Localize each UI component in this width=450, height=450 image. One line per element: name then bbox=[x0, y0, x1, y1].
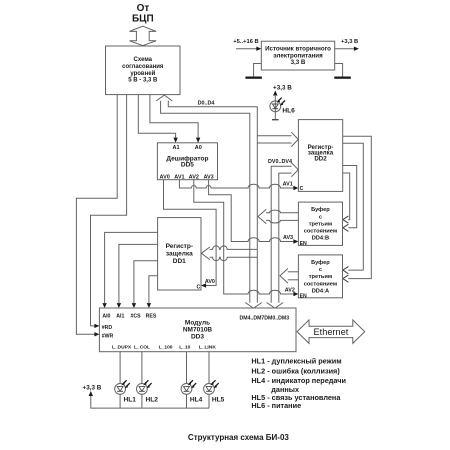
svg-text:уровней: уровней bbox=[130, 70, 155, 77]
svg-text:5 В - 3,3 В: 5 В - 3,3 В bbox=[128, 77, 158, 83]
Ethernet bidirectional arrow bbox=[297, 320, 365, 344]
pin arrow AV0 into C of DD1 bbox=[201, 283, 206, 287]
svg-text:Ethernet: Ethernet bbox=[314, 327, 349, 337]
bus branch into register DD1 (rails with hops + hollow head) bbox=[210, 246, 258, 250]
svg-text:HL6: HL6 bbox=[282, 107, 295, 114]
pin arrow AI0 bbox=[102, 303, 106, 308]
arrow up to +3,3 В (HL6) bbox=[273, 91, 277, 96]
svg-text:состоянием: состоянием bbox=[304, 281, 337, 287]
pin arrow AV2 into EN of DD4:A bbox=[293, 292, 298, 296]
arrow into power box bbox=[256, 47, 261, 51]
svg-text:AV0: AV0 bbox=[160, 175, 170, 181]
bus branch into register DD2 (rails + hollow head) bbox=[257, 135, 291, 137]
wire #RD (from level shifter to module DD3) bbox=[91, 95, 127, 326]
chevron arrow into DD4:B right bbox=[343, 224, 349, 231]
bus DV0..DV4 rails (corner up into DD2, down to module) bbox=[271, 166, 291, 303]
svg-text:с: с bbox=[319, 214, 322, 220]
wire DD2 out 4 to buffer DD4:B input (right side) bbox=[343, 173, 350, 220]
svg-text:A1: A1 bbox=[172, 145, 179, 151]
bus D0..D4 rails (up from corner, east, down to module) bbox=[161, 101, 250, 303]
wire #WR (from level shifter to module DD3) bbox=[76, 95, 117, 335]
pin arrow AV3 into EN of DD4:B bbox=[293, 239, 298, 243]
wire HL6 supply bbox=[274, 95, 276, 120]
svg-text:DD4:A: DD4:A bbox=[312, 288, 329, 294]
svg-text:HL2 - ошибка (коллизия): HL2 - ошибка (коллизия) bbox=[251, 366, 340, 375]
power supply box (Источник вторичного электропитания 3,3 В) bbox=[261, 41, 334, 70]
chevron arrow into DD4:A right bbox=[343, 275, 349, 282]
wire L_10 to HL4 bbox=[186, 352, 188, 408]
LED HL1 bbox=[115, 380, 137, 403]
svg-text:A0: A0 bbox=[195, 145, 202, 151]
svg-text:HL2: HL2 bbox=[146, 396, 159, 403]
svg-text:с: с bbox=[319, 267, 322, 273]
pin arrow #CS bbox=[132, 303, 136, 308]
svg-text:Буфер: Буфер bbox=[311, 259, 330, 266]
bus from buffer DD4:A output (rails + hollow head) bbox=[288, 271, 299, 273]
wire +5..+16 В input bbox=[236, 48, 257, 50]
decoder DD5 (Дешифратор) bbox=[157, 143, 217, 181]
svg-text:DD5: DD5 bbox=[181, 162, 194, 169]
svg-text:HL6 - питание: HL6 - питание bbox=[251, 401, 301, 410]
svg-text:AI0: AI0 bbox=[102, 314, 110, 320]
svg-text:DD1: DD1 bbox=[173, 258, 186, 265]
wire DD2 out 1 to buffer DD4:A input (right side) bbox=[343, 136, 372, 278]
bus D0..D4 arrowhead into level shifter bbox=[156, 95, 172, 101]
svg-text:L_COL: L_COL bbox=[134, 345, 150, 351]
pin arrow A1 bbox=[173, 138, 177, 143]
LED HL4 bbox=[181, 380, 203, 403]
buffer DD4:A (Буфер с третьим состоянием) bbox=[298, 255, 342, 299]
wire L_LINK to HL5 bbox=[208, 352, 210, 408]
pin arrow AV1 into C of DD2 bbox=[293, 186, 298, 190]
svg-text:DM4..DM7DM0..DM3: DM4..DM7DM0..DM3 bbox=[240, 315, 290, 321]
bus from buffer DD4:B output (rails with hop over DV bus + hollow head) bbox=[266, 210, 298, 213]
svg-text:+5..+16 В: +5..+16 В bbox=[233, 39, 258, 45]
wire AV0 (DD5 to DD1 pin C) bbox=[164, 180, 217, 286]
svg-text:DD3: DD3 bbox=[191, 334, 204, 341]
wire +3,3 В output bbox=[335, 48, 354, 50]
wire L_COL to HL2 bbox=[141, 352, 143, 408]
wire DD1 to module pin RES bbox=[149, 276, 158, 303]
chevron arrow into DD4:A right bbox=[343, 267, 349, 274]
pin arrow A0 bbox=[196, 138, 200, 143]
register-latch DD2 (Регистр-защелка) bbox=[298, 120, 342, 192]
svg-text:#CS: #CS bbox=[130, 314, 141, 320]
svg-text:DD2: DD2 bbox=[314, 155, 327, 162]
arrow +3,3 В output bbox=[354, 47, 359, 51]
svg-text:Буфер: Буфер bbox=[311, 206, 330, 213]
svg-text:NM7010B: NM7010B bbox=[183, 326, 213, 333]
wire A1 (level shifter to decoder DD5) bbox=[138, 95, 175, 138]
bidirectional bus arrow to БЦП bbox=[130, 26, 157, 45]
svg-text:От: От bbox=[137, 3, 150, 14]
svg-text:HL4: HL4 bbox=[190, 396, 203, 403]
svg-text:Схема: Схема bbox=[134, 57, 153, 63]
level-shifter box (Схема согласования уровней 5В-3,3В) bbox=[106, 46, 181, 95]
svg-text:AI1: AI1 bbox=[116, 314, 124, 320]
wire AV2 (DD5 to buffer DD4:A pin EN, with hops) bbox=[194, 180, 294, 294]
register-latch DD1 (Регистр-защелка) bbox=[158, 218, 201, 291]
svg-text:C: C bbox=[300, 186, 304, 192]
bus DV0..DV4 arrowhead into module DD3 (DM0..DM3) bbox=[267, 303, 284, 309]
svg-text:C: C bbox=[196, 285, 200, 291]
bus D0..D4 arrowhead into module DD3 (DM4..DM7) bbox=[245, 303, 262, 309]
wire DD1 to module pin #CS bbox=[134, 261, 158, 303]
wire AV3 (DD5 to buffer DD4:B pin EN, with hops) bbox=[209, 180, 294, 242]
wire L_DUPX to HL1 bbox=[119, 352, 121, 408]
pin arrow #WR bbox=[94, 332, 99, 336]
svg-text:защелка: защелка bbox=[166, 251, 193, 258]
svg-text:EN: EN bbox=[300, 293, 307, 299]
svg-text:AV2: AV2 bbox=[285, 288, 295, 294]
svg-text:AV3: AV3 bbox=[283, 235, 293, 241]
svg-text:+3,3 В: +3,3 В bbox=[83, 385, 102, 392]
svg-text:Регистр-: Регистр- bbox=[166, 243, 193, 250]
svg-text:D0..D4: D0..D4 bbox=[198, 101, 215, 107]
wire A0 (level shifter to decoder DD5) bbox=[150, 95, 198, 138]
svg-text:L_10: L_10 bbox=[179, 345, 190, 351]
module DD3 (Модуль NM7010B) bbox=[99, 308, 296, 352]
wire +3,3 В common rail bbox=[91, 395, 209, 408]
wire DD1 to module pin AI1 bbox=[119, 244, 158, 303]
svg-text:согласования: согласования bbox=[122, 64, 164, 70]
pin arrow RES bbox=[147, 303, 151, 308]
svg-text:DD4:B: DD4:B bbox=[312, 236, 329, 242]
svg-text:#RD: #RD bbox=[102, 325, 113, 331]
LED HL5 bbox=[204, 380, 225, 403]
svg-text:Структурная схема БИ-03: Структурная схема БИ-03 bbox=[188, 433, 289, 442]
svg-text:БЦП: БЦП bbox=[132, 14, 154, 25]
arrow up to +3,3 В (LED rail) bbox=[89, 391, 93, 396]
svg-text:третьим: третьим bbox=[309, 221, 332, 227]
svg-text:DV0..DV4: DV0..DV4 bbox=[268, 159, 292, 165]
buffer DD4:B (Буфер с третьим состоянием) bbox=[298, 202, 342, 247]
svg-text:L_LINK: L_LINK bbox=[199, 345, 217, 351]
svg-text:AV1: AV1 bbox=[283, 181, 293, 187]
svg-text:HL5: HL5 bbox=[212, 396, 225, 403]
svg-text:L_100: L_100 bbox=[159, 345, 173, 351]
bus DV0..DV4 hollow arrowhead into DD2 bbox=[291, 163, 298, 177]
svg-text:+3,3 В: +3,3 В bbox=[273, 84, 292, 91]
svg-text:HL1: HL1 bbox=[124, 396, 137, 403]
svg-text:AV0: AV0 bbox=[205, 279, 215, 285]
svg-text:HL4 - индикатор передачи: HL4 - индикатор передачи bbox=[251, 376, 346, 385]
chevron arrow into DD4:B right bbox=[343, 216, 349, 223]
wire DD2 out 3 to buffer DD4:B input (right side) bbox=[343, 166, 357, 228]
ground (left of power box) bbox=[245, 64, 262, 79]
wire DD2 out 2 to buffer DD4:A input (right side) bbox=[343, 143, 364, 270]
svg-text:RES: RES bbox=[146, 314, 157, 320]
LED HL2 bbox=[137, 380, 159, 403]
svg-text:состоянием: состоянием bbox=[304, 229, 337, 235]
svg-text:EN: EN bbox=[300, 241, 307, 247]
pin arrow AI1 bbox=[117, 303, 121, 308]
svg-text:L_DUPX: L_DUPX bbox=[112, 345, 132, 351]
pin arrow #RD bbox=[94, 324, 99, 328]
svg-text:HL1 - дуплексный режим: HL1 - дуплексный режим bbox=[251, 357, 341, 366]
svg-text:3,3 В: 3,3 В bbox=[291, 59, 306, 66]
svg-text:третьим: третьим bbox=[309, 274, 332, 280]
ground (right of power box) bbox=[334, 64, 351, 79]
wire AV1 (DD5 to DD2 pin C, with hops) bbox=[179, 180, 293, 188]
svg-text:+3,3 В: +3,3 В bbox=[341, 39, 358, 45]
terminal tick (HL6 wire end) bbox=[272, 119, 279, 121]
node От БЦП (label) bbox=[132, 3, 154, 25]
svg-text:#WR: #WR bbox=[102, 333, 114, 339]
LED HL6 bbox=[270, 98, 295, 115]
wire DD1 to module pin AI0 bbox=[105, 232, 158, 303]
